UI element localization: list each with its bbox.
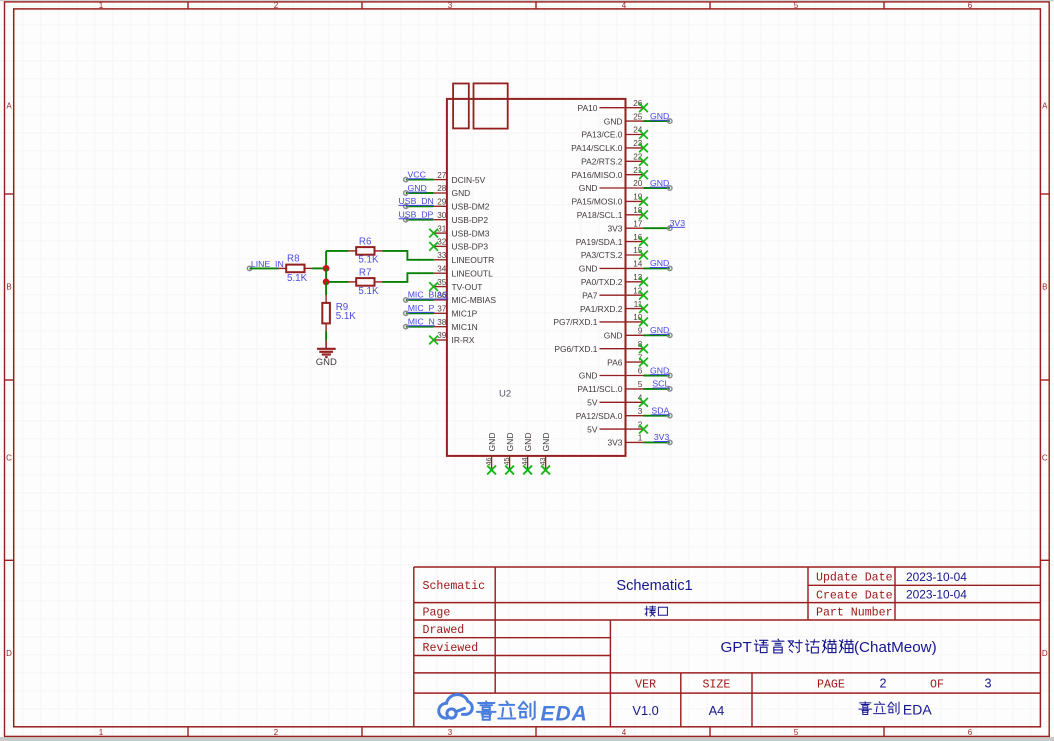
ground symbol GND [316, 341, 337, 368]
junction node B [323, 279, 330, 286]
svg-text:3V3: 3V3 [670, 218, 686, 228]
IC U2 body [447, 99, 626, 456]
svg-text:37: 37 [437, 305, 447, 314]
IC U2 pin 17 3V3 [607, 218, 685, 233]
svg-text:5.1K: 5.1K [358, 286, 379, 297]
page name value (Chinese: JieKou / interface) [645, 606, 668, 616]
IC U2 pin 20 GND [579, 178, 672, 193]
IC U2 pin 33 LINEOUTR [434, 251, 495, 265]
IC U2 pin 26 PA10 [577, 99, 647, 113]
IC U2 pin 24 PA13/CE.0 [581, 126, 648, 140]
svg-text:1: 1 [99, 1, 104, 10]
svg-text:6: 6 [968, 728, 973, 737]
IC U2 pin 39 IR-RX [429, 331, 475, 345]
svg-text:USB-DM2: USB-DM2 [452, 202, 490, 212]
resistor R7 [348, 268, 382, 297]
IC U2 pin 36 MIC-MBIAS [404, 290, 497, 305]
svg-text:D: D [6, 649, 12, 658]
svg-text:PA0/TXD.2: PA0/TXD.2 [581, 277, 623, 287]
resistor R9 [322, 295, 356, 332]
IC U2 pin 34 LINEOUTL [434, 264, 493, 278]
svg-text:3: 3 [448, 1, 453, 10]
svg-text:GND: GND [650, 365, 669, 375]
IC U2 pin 5 PA11/SCL.0 [577, 379, 672, 394]
resistor R6 [348, 237, 382, 266]
wire junction A to junction B [325, 268, 327, 282]
svg-text:VCC: VCC [408, 169, 426, 179]
svg-text:GND: GND [579, 264, 598, 274]
net label LINE_IN [247, 259, 283, 270]
svg-text:GND: GND [604, 116, 623, 126]
svg-text:Create Date: Create Date [816, 590, 893, 603]
svg-text:30: 30 [437, 211, 447, 220]
svg-text:25: 25 [633, 112, 643, 121]
svg-text:PG7/RXD.1: PG7/RXD.1 [553, 317, 597, 327]
svg-text:14: 14 [633, 260, 643, 269]
svg-text:GND: GND [579, 371, 598, 381]
IC U2 pin 37 MIC1P [404, 303, 478, 318]
svg-text:46: 46 [484, 458, 493, 466]
svg-text:LINEOUTL: LINEOUTL [452, 268, 494, 278]
JLCEDA logo text [477, 701, 588, 725]
svg-text:Schematic1: Schematic1 [616, 578, 692, 594]
svg-text:GND: GND [505, 432, 515, 451]
title block labels [423, 572, 944, 692]
svg-text:GND: GND [408, 183, 427, 193]
svg-text:EDA: EDA [903, 701, 932, 717]
svg-text:GND: GND [579, 183, 598, 193]
IC U2 pin 38 MIC1N [404, 317, 478, 332]
IC U2 pin 30 USB-DP2 [399, 210, 489, 225]
svg-text:C: C [1042, 454, 1048, 463]
svg-text:VER: VER [635, 678, 656, 691]
svg-text:38: 38 [437, 318, 447, 327]
svg-text:PA15/MOSI.0: PA15/MOSI.0 [572, 197, 623, 207]
svg-text:4: 4 [622, 728, 627, 737]
svg-text:PA16/MISO.0: PA16/MISO.0 [572, 170, 623, 180]
svg-text:B: B [1042, 283, 1047, 292]
wire R9 to ground [325, 331, 327, 341]
svg-text:29: 29 [437, 198, 447, 207]
IC U2 pin 6 GND [579, 365, 672, 380]
wire R6 to pin 33 LINEOUTR [382, 251, 433, 260]
svg-text:A: A [1042, 102, 1048, 111]
IC U2 pin 3 PA12/SDA.0 [576, 406, 672, 421]
svg-text:Update Date: Update Date [816, 572, 893, 585]
svg-text:PA2/RTS.2: PA2/RTS.2 [581, 157, 623, 167]
svg-text:GND: GND [452, 188, 471, 198]
svg-text:PA3/CTS.2: PA3/CTS.2 [581, 250, 623, 260]
svg-text:1: 1 [99, 728, 104, 737]
svg-text:2023-10-04: 2023-10-04 [906, 570, 967, 584]
IC U2 pin 15 PA3/CTS.2 [581, 246, 648, 260]
IC U2 pin 23 PA14/SCLK.0 [571, 139, 648, 153]
svg-text:3V3: 3V3 [607, 223, 622, 233]
svg-text:TV-OUT: TV-OUT [452, 282, 483, 292]
svg-text:R6: R6 [359, 237, 372, 248]
svg-text:USB-DP3: USB-DP3 [452, 242, 489, 252]
IC U2 pin 9 GND [604, 325, 672, 340]
svg-text:LINEOUTR: LINEOUTR [452, 255, 495, 265]
svg-text:Schematic: Schematic [423, 580, 486, 593]
svg-text:PA12/SDA.0: PA12/SDA.0 [576, 411, 623, 421]
IC U2 pin 28 GND [404, 183, 471, 198]
svg-text:31: 31 [437, 224, 447, 233]
svg-text:A4: A4 [709, 703, 725, 718]
svg-text:A: A [6, 102, 12, 111]
company name cell (JLC EDA) [859, 701, 933, 717]
svg-text:5.1K: 5.1K [358, 255, 379, 266]
svg-text:GND: GND [523, 432, 533, 451]
svg-text:PA11/SCL.0: PA11/SCL.0 [577, 384, 622, 394]
svg-text:GND: GND [541, 432, 551, 451]
svg-text:USB-DP2: USB-DP2 [452, 215, 489, 225]
IC U2 top shield rectangle large [474, 83, 508, 128]
IC U2 pin 12 PA7 [582, 286, 648, 300]
svg-text:43: 43 [538, 458, 547, 466]
svg-text:44: 44 [520, 458, 529, 466]
svg-text:2: 2 [274, 728, 279, 737]
svg-text:MIC_N: MIC_N [408, 317, 435, 327]
svg-text:5.1K: 5.1K [336, 311, 357, 322]
svg-text:EDA: EDA [541, 702, 588, 725]
svg-text:27: 27 [437, 171, 447, 180]
svg-text:SCL: SCL [652, 379, 669, 389]
svg-text:34: 34 [437, 264, 447, 273]
IC U2 pin 22 PA2/RTS.2 [581, 153, 648, 167]
svg-text:D: D [1042, 649, 1048, 658]
IC U2 pin 31 USB-DM3 [429, 224, 490, 238]
svg-text:GPT: GPT [721, 639, 752, 656]
svg-text:C: C [6, 454, 12, 463]
svg-text:17: 17 [633, 219, 643, 228]
IC U2 pin 10 PG7/RXD.1 [553, 313, 647, 327]
svg-text:20: 20 [633, 179, 643, 188]
title block table grid [414, 567, 1041, 727]
IC U2 pin 29 USB-DM2 [399, 196, 490, 211]
svg-text:Reviewed: Reviewed [423, 642, 479, 655]
svg-text:PA7: PA7 [582, 290, 598, 300]
svg-text:MIC1P: MIC1P [452, 309, 478, 319]
svg-text:3V3: 3V3 [654, 432, 670, 442]
svg-text:MIC-MBIAS: MIC-MBIAS [452, 295, 497, 305]
wire R8 to junction A [312, 267, 326, 269]
IC U2 pin 13 PA0/TXD.2 [581, 273, 648, 287]
svg-text:PG6/TXD.1: PG6/TXD.1 [554, 344, 597, 354]
svg-text:SDA: SDA [651, 406, 669, 416]
svg-text:PA1/RXD.2: PA1/RXD.2 [580, 304, 623, 314]
IC U2 pin 27 DCIN-5V [404, 169, 486, 184]
IC U2 pin 32 USB-DP3 [429, 238, 488, 252]
svg-text:28: 28 [437, 184, 447, 193]
svg-text:Drawed: Drawed [423, 624, 465, 637]
svg-text:U2: U2 [499, 389, 511, 400]
IC U2 pin 18 PA18/SCL.1 [577, 206, 648, 220]
svg-text:5V: 5V [587, 398, 598, 408]
JLCEDA logo cloud icon [439, 695, 473, 719]
svg-text:GND: GND [487, 432, 497, 451]
svg-text:GND: GND [650, 178, 669, 188]
svg-text:V1.0: V1.0 [632, 703, 658, 718]
wire R7 to pin 34 LINEOUTL [382, 273, 433, 282]
IC U2 pin 46 GND (bottom) [484, 432, 497, 474]
svg-text:Part Number: Part Number [816, 607, 893, 620]
svg-text:3: 3 [984, 676, 991, 690]
svg-text:5.1K: 5.1K [287, 273, 308, 284]
svg-text:(ChatMeow): (ChatMeow) [854, 639, 937, 656]
svg-text:5: 5 [794, 1, 799, 10]
svg-text:GND: GND [650, 325, 669, 335]
IC U2 pin 11 PA1/RXD.2 [580, 300, 648, 314]
IC U2 pin 14 GND [579, 258, 672, 273]
wire LINE_IN to R8 [250, 267, 279, 269]
wire junction B down to R9 [325, 282, 327, 295]
svg-text:GND: GND [604, 331, 623, 341]
svg-text:Page: Page [423, 607, 451, 620]
IC U2 pin 45 GND (bottom) [502, 432, 515, 474]
svg-text:SIZE: SIZE [702, 678, 730, 691]
svg-text:9: 9 [638, 327, 643, 336]
IC U2 pin 16 PA19/SDA.1 [576, 233, 648, 247]
IC U2 pin 43 GND (bottom) [538, 432, 551, 474]
svg-text:PA6: PA6 [607, 357, 623, 367]
svg-text:USB_DP: USB_DP [399, 210, 434, 220]
svg-text:IR-RX: IR-RX [452, 335, 475, 345]
svg-text:39: 39 [437, 331, 447, 340]
svg-text:DCIN-5V: DCIN-5V [452, 175, 486, 185]
svg-text:2: 2 [274, 1, 279, 10]
svg-text:PA13/CE.0: PA13/CE.0 [581, 130, 622, 140]
svg-text:2023-10-04: 2023-10-04 [906, 588, 967, 602]
wire to R6 [326, 250, 348, 252]
IC U2 pin 1 3V3 [607, 432, 672, 447]
IC U2 pin 4 5V [587, 394, 648, 408]
svg-text:45: 45 [502, 458, 511, 466]
svg-text:PA19/SDA.1: PA19/SDA.1 [576, 237, 623, 247]
IC U2 top shield rectangle small [453, 84, 469, 129]
IC U2 pin 35 TV-OUT [429, 278, 482, 292]
sheet title GPT voice chat cat (ChatMeow) [721, 639, 937, 656]
svg-text:6: 6 [968, 1, 973, 10]
svg-text:R8: R8 [287, 254, 300, 265]
IC U2 pin 7 PA6 [607, 353, 648, 367]
svg-text:R7: R7 [359, 268, 372, 279]
wire junction B to R7 [326, 281, 348, 283]
svg-text:3: 3 [448, 728, 453, 737]
svg-text:GND: GND [650, 111, 669, 121]
svg-text:GND: GND [650, 258, 669, 268]
svg-text:MIC1N: MIC1N [452, 322, 478, 332]
IC U2 pin 25 GND [604, 111, 672, 126]
svg-text:USB_DN: USB_DN [399, 196, 434, 206]
svg-text:32: 32 [437, 238, 447, 247]
IC U2 pin 21 PA16/MISO.0 [572, 166, 648, 180]
resistor R8 [278, 254, 312, 284]
IC U2 pin 19 PA15/MOSI.0 [572, 193, 648, 207]
svg-text:PA10: PA10 [577, 103, 597, 113]
svg-text:PA14/SCLK.0: PA14/SCLK.0 [571, 143, 623, 153]
svg-text:5: 5 [638, 380, 643, 389]
IC U2 pin 8 PG6/TXD.1 [554, 340, 648, 354]
svg-text:GND: GND [316, 357, 337, 368]
title block values [616, 570, 991, 718]
svg-text:33: 33 [437, 251, 447, 260]
svg-text:5V: 5V [587, 424, 598, 434]
wire junction A up to R6 row [325, 251, 327, 269]
svg-text:1: 1 [638, 434, 643, 443]
svg-text:2: 2 [879, 676, 886, 690]
svg-text:PA18/SCL.1: PA18/SCL.1 [577, 210, 623, 220]
IC U2 pin 44 GND (bottom) [520, 432, 533, 474]
svg-text:PAGE: PAGE [817, 678, 845, 691]
svg-text:3V3: 3V3 [607, 438, 622, 448]
svg-text:MIC_BIAS: MIC_BIAS [408, 290, 449, 300]
svg-text:5: 5 [794, 728, 799, 737]
svg-text:USB-DM3: USB-DM3 [452, 228, 490, 238]
svg-text:35: 35 [437, 278, 447, 287]
svg-text:4: 4 [622, 1, 627, 10]
svg-text:MIC_P: MIC_P [408, 303, 435, 313]
svg-text:6: 6 [638, 367, 643, 376]
svg-text:3: 3 [638, 407, 643, 416]
svg-text:B: B [6, 283, 11, 292]
IC U2 pin 2 5V [587, 420, 648, 434]
svg-text:OF: OF [930, 678, 944, 691]
junction node A [323, 265, 330, 272]
